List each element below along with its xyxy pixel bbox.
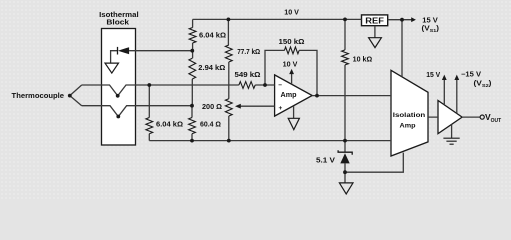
svg-text:Isothermal: Isothermal [99, 12, 139, 19]
svg-text:10 kΩ: 10 kΩ [353, 57, 373, 64]
svg-text:Amp: Amp [281, 92, 297, 99]
svg-text:200 Ω: 200 Ω [202, 104, 222, 111]
svg-text:−: − [278, 82, 282, 89]
svg-text:Block: Block [106, 19, 129, 26]
svg-text:15 V: 15 V [422, 18, 438, 25]
svg-text:15 V: 15 V [426, 72, 440, 79]
svg-text:REF: REF [365, 16, 384, 25]
svg-text:Amp: Amp [400, 123, 416, 130]
svg-text:2.94 kΩ: 2.94 kΩ [198, 65, 225, 72]
svg-text:6.04 kΩ: 6.04 kΩ [199, 32, 226, 39]
svg-text:549 kΩ: 549 kΩ [235, 72, 261, 79]
svg-text:10 V: 10 V [283, 62, 298, 69]
svg-text:6.04 kΩ: 6.04 kΩ [156, 122, 183, 129]
svg-text:10 V: 10 V [284, 10, 299, 17]
svg-text:60.4 Ω: 60.4 Ω [200, 122, 221, 129]
svg-text:77.7 kΩ: 77.7 kΩ [237, 49, 260, 56]
svg-text:Thermocouple: Thermocouple [12, 93, 65, 100]
svg-text:−15 V: −15 V [461, 72, 481, 79]
svg-text:150 kΩ: 150 kΩ [279, 39, 305, 46]
svg-text:+: + [279, 105, 283, 112]
svg-text:5.1 V: 5.1 V [316, 158, 335, 165]
svg-text:Isolation: Isolation [393, 112, 426, 119]
